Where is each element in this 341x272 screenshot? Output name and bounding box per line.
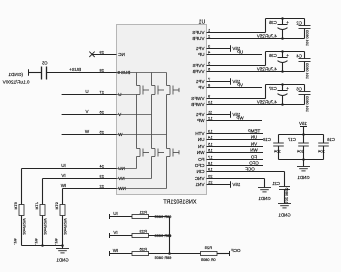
capacitor C17 bbox=[303, 135, 305, 144]
svg-text:15V: 15V bbox=[299, 121, 307, 126]
svg-text:VP: VP bbox=[237, 83, 243, 88]
capacitor C18 bbox=[278, 135, 280, 144]
wire pin12 WP bbox=[207, 120, 263, 122]
svg-text:20mR/2W: 20mR/2W bbox=[22, 218, 26, 235]
svg-text:R16: R16 bbox=[55, 201, 60, 209]
wire pin7 VP1/VN1 bbox=[207, 81, 231, 83]
transistor QU high side bbox=[136, 73, 138, 86]
svg-text:22: 22 bbox=[99, 184, 104, 189]
capacitor C2 ceramic bbox=[304, 19, 306, 26]
svg-text:C16: C16 bbox=[327, 137, 335, 142]
svg-text:R18: R18 bbox=[14, 201, 19, 209]
svg-text:R21: R21 bbox=[139, 209, 147, 214]
svg-text:C36: C36 bbox=[268, 53, 276, 58]
svg-text:GND1: GND1 bbox=[278, 212, 291, 217]
capacitor C16 bbox=[323, 135, 325, 144]
svg-text:VP1: VP1 bbox=[195, 46, 204, 51]
svg-text:19: 19 bbox=[207, 167, 212, 172]
wire pin8 VP bbox=[207, 87, 263, 89]
wire pin17 FO bbox=[207, 159, 264, 161]
gate tick low side bbox=[178, 150, 180, 154]
wire VxFB pin10 bbox=[207, 104, 305, 106]
transistor QW high side bbox=[166, 73, 168, 86]
wire NU pin24 bbox=[22, 168, 117, 170]
wire W to high side bbox=[117, 134, 167, 136]
svg-text:26: 26 bbox=[99, 110, 104, 115]
svg-text:-1%: -1% bbox=[13, 238, 17, 245]
svg-text:FO: FO bbox=[198, 157, 205, 162]
wire W pin25 bbox=[62, 134, 117, 136]
wire V pin26 bbox=[62, 114, 117, 116]
svg-text:WN: WN bbox=[197, 150, 205, 155]
svg-text:68R 0805: 68R 0805 bbox=[155, 255, 172, 260]
wire pin4 UP bbox=[207, 54, 263, 56]
svg-text:4.7uF/25V: 4.7uF/25V bbox=[257, 100, 277, 105]
svg-text:BUS+: BUS+ bbox=[69, 67, 81, 72]
wire sense bus vertical bbox=[169, 217, 171, 254]
svg-text:CFO: CFO bbox=[249, 161, 259, 166]
svg-text:16: 16 bbox=[207, 148, 212, 153]
svg-text:VTH: VTH bbox=[195, 131, 204, 136]
svg-text:28: 28 bbox=[99, 68, 104, 73]
wire VxFS pin1 bbox=[207, 32, 266, 34]
svg-text:GND1: GND1 bbox=[258, 196, 271, 201]
svg-text:102 0805: 102 0805 bbox=[285, 188, 289, 204]
svg-text:12: 12 bbox=[207, 116, 212, 121]
svg-text:IW: IW bbox=[112, 248, 118, 253]
svg-text:R23: R23 bbox=[139, 228, 147, 233]
svg-text:-1%: -1% bbox=[54, 238, 58, 245]
wire VxFB pin6 bbox=[207, 71, 305, 73]
svg-text:C21: C21 bbox=[271, 181, 279, 186]
svg-text:NC: NC bbox=[118, 52, 125, 57]
svg-text:C4: C4 bbox=[296, 54, 302, 59]
wire IV to resistor bbox=[110, 235, 133, 237]
resistor R26 bbox=[132, 252, 149, 256]
wire IU to resistor bbox=[110, 216, 133, 218]
ground GND1 shunt bbox=[62, 246, 64, 249]
svg-text:20: 20 bbox=[207, 174, 212, 179]
svg-text:OCF: OCF bbox=[231, 248, 241, 253]
power flag 15V bbox=[230, 45, 232, 51]
svg-text:VP1: VP1 bbox=[195, 79, 204, 84]
resistor R23 bbox=[132, 234, 149, 238]
power flag 15V bbox=[230, 111, 232, 117]
svg-text:VN1: VN1 bbox=[195, 182, 204, 187]
svg-text:27: 27 bbox=[99, 90, 104, 95]
svg-text:15V: 15V bbox=[232, 182, 240, 187]
svg-text:VP1: VP1 bbox=[195, 112, 204, 117]
capacitor C5 bus bbox=[46, 67, 48, 80]
svg-text:VP: VP bbox=[198, 85, 204, 90]
svg-text:-1%: -1% bbox=[34, 238, 38, 245]
svg-text:104 0603: 104 0603 bbox=[305, 96, 309, 112]
svg-text:+: + bbox=[286, 54, 289, 59]
net flag IW bbox=[109, 251, 111, 256]
svg-text:IU: IU bbox=[61, 163, 66, 168]
power flag 15V bbox=[230, 181, 232, 187]
wire BUS+ rail inside IC bbox=[117, 72, 167, 74]
svg-text:R17: R17 bbox=[35, 201, 40, 209]
svg-text:WP: WP bbox=[236, 116, 243, 121]
svg-text:104: 104 bbox=[273, 149, 280, 154]
svg-text:TEMP: TEMP bbox=[248, 129, 261, 134]
transistor QU low side bbox=[136, 95, 138, 149]
svg-text:UN: UN bbox=[251, 135, 258, 140]
wire to bus bbox=[149, 253, 170, 255]
svg-text:C2: C2 bbox=[296, 21, 302, 26]
wire pin3 VP1/VN1 bbox=[207, 48, 231, 50]
resistor R21 bbox=[132, 215, 149, 219]
svg-text:UP: UP bbox=[237, 50, 243, 55]
net flag OCF bbox=[229, 251, 231, 256]
wire NV inside bbox=[151, 157, 153, 179]
wire R25 to OCF bbox=[217, 253, 230, 255]
svg-text:(GND1: (GND1 bbox=[8, 72, 23, 77]
svg-text:24: 24 bbox=[99, 164, 104, 169]
svg-text:21: 21 bbox=[207, 180, 212, 185]
transistor QV high side bbox=[151, 73, 153, 86]
transistor QW low side bbox=[166, 135, 168, 149]
svg-text:IV: IV bbox=[113, 230, 117, 235]
wire to bus bbox=[149, 216, 170, 218]
svg-text:23: 23 bbox=[99, 174, 104, 179]
svg-text:29: 29 bbox=[99, 50, 104, 55]
wire NW inside bbox=[166, 157, 168, 189]
wire pin11 VP1/VN1 bbox=[207, 114, 231, 116]
ground GND1 under C21 bbox=[278, 203, 291, 205]
net flag IU bbox=[109, 214, 111, 219]
svg-text:XNS15021RT: XNS15021RT bbox=[163, 199, 197, 205]
wire NV pin23 bbox=[43, 178, 117, 180]
wire VxFS pin9 bbox=[207, 98, 266, 100]
power flag GND1 bbox=[28, 69, 30, 75]
svg-text:V: V bbox=[85, 109, 88, 114]
wire VxFB pin2 bbox=[207, 38, 305, 40]
wire U pin27 bbox=[62, 94, 117, 96]
svg-text:VVFB: VVFB bbox=[193, 69, 205, 74]
wire pin14 UN bbox=[207, 139, 264, 141]
wire bus to R25 bbox=[170, 253, 201, 255]
svg-text:C6: C6 bbox=[296, 87, 302, 92]
svg-text:UN: UN bbox=[198, 137, 205, 142]
wire BUS+ pin28 bbox=[47, 72, 117, 74]
resistor R18 shunt bbox=[19, 205, 24, 216]
svg-text:WN: WN bbox=[250, 148, 258, 153]
svg-text:VWFB: VWFB bbox=[191, 102, 204, 107]
svg-text:VUFS: VUFS bbox=[192, 30, 204, 35]
transistor QV low side bbox=[151, 115, 153, 149]
wire 15V rail bbox=[279, 134, 324, 136]
svg-text:OCF: OCF bbox=[245, 167, 255, 172]
svg-text:U: U bbox=[85, 89, 88, 94]
svg-text:VNC: VNC bbox=[194, 176, 204, 181]
svg-text:GND1: GND1 bbox=[297, 175, 310, 180]
svg-text:VWFS: VWFS bbox=[191, 96, 204, 101]
wire U to high side bbox=[117, 94, 137, 96]
wire pin19 CIN / net OCF bbox=[207, 171, 285, 173]
svg-text:IV: IV bbox=[61, 173, 65, 178]
capacitor C6 ceramic bbox=[304, 85, 306, 92]
svg-text:+: + bbox=[286, 21, 289, 26]
wire pin15 VN bbox=[207, 146, 264, 148]
svg-text:17: 17 bbox=[207, 155, 212, 160]
svg-text:4.7uF/25V: 4.7uF/25V bbox=[257, 67, 277, 72]
wire pin16 WN bbox=[207, 152, 264, 154]
svg-text:104: 104 bbox=[296, 149, 303, 154]
svg-text:+: + bbox=[286, 87, 289, 92]
pin29 NC no-connect bbox=[92, 54, 117, 56]
wire pin13 TEMP bbox=[207, 133, 264, 135]
svg-text:13: 13 bbox=[207, 129, 212, 134]
capacitor C37 electrolytic bbox=[282, 85, 284, 91]
svg-text:FO: FO bbox=[250, 155, 257, 160]
svg-text:R26: R26 bbox=[139, 246, 147, 251]
svg-text:VN: VN bbox=[198, 144, 204, 149]
svg-text:CFO: CFO bbox=[194, 163, 204, 168]
svg-text:C35: C35 bbox=[268, 20, 276, 25]
svg-text:104 0603: 104 0603 bbox=[305, 63, 309, 79]
svg-text:104: 104 bbox=[317, 149, 324, 154]
svg-text:C37: C37 bbox=[268, 86, 276, 91]
svg-text:GND1: GND1 bbox=[56, 258, 69, 263]
ground GND1 at VNC bbox=[258, 187, 271, 189]
svg-text:R25: R25 bbox=[204, 245, 212, 250]
ground GND1 bank bbox=[303, 160, 305, 167]
wire shunt common rail bbox=[22, 245, 63, 247]
svg-text:VVFS: VVFS bbox=[193, 63, 205, 68]
IC U1 IPM module body bbox=[117, 25, 207, 195]
svg-text:20mR/2W: 20mR/2W bbox=[63, 218, 67, 235]
svg-text:104 0603: 104 0603 bbox=[305, 30, 309, 46]
wire to GND1 flag bbox=[29, 72, 42, 74]
wire V to high side bbox=[117, 114, 152, 116]
svg-text:18: 18 bbox=[207, 161, 212, 166]
wire pin21 VP1/VN1 bbox=[207, 184, 231, 186]
svg-text:VN: VN bbox=[251, 142, 257, 147]
svg-text:U1: U1 bbox=[199, 19, 206, 25]
svg-text:0R 0805: 0R 0805 bbox=[201, 257, 216, 262]
wire to bus bbox=[149, 235, 170, 237]
capacitor C36 electrolytic bbox=[282, 52, 284, 58]
svg-text:WP: WP bbox=[197, 118, 204, 123]
wire NW pin22 bbox=[63, 188, 117, 190]
resistor R16 shunt bbox=[60, 205, 65, 216]
svg-text:C17: C17 bbox=[287, 137, 295, 142]
svg-text:0.1uF/1200V: 0.1uF/1200V bbox=[2, 80, 30, 85]
wire pin20 VNC bbox=[207, 178, 265, 180]
svg-text:C18: C18 bbox=[262, 137, 270, 142]
svg-text:14: 14 bbox=[207, 135, 212, 140]
wire IW to resistor bbox=[110, 253, 133, 255]
svg-text:10: 10 bbox=[207, 100, 212, 105]
capacitor C35 electrolytic bbox=[282, 19, 284, 25]
svg-text:20mR/2W: 20mR/2W bbox=[43, 218, 47, 235]
svg-text:25: 25 bbox=[99, 130, 104, 135]
svg-text:IU: IU bbox=[113, 211, 118, 216]
svg-text:4.7uF/25V: 4.7uF/25V bbox=[257, 34, 277, 39]
svg-text:15: 15 bbox=[207, 142, 212, 147]
gate tick high side bbox=[178, 88, 180, 92]
svg-text:CIN: CIN bbox=[197, 169, 205, 174]
net flag IV bbox=[109, 233, 111, 238]
wire NU inside bbox=[136, 157, 138, 169]
wire pin18 CFO bbox=[207, 165, 264, 167]
svg-text:C5: C5 bbox=[41, 61, 47, 66]
capacitor C21 bbox=[284, 172, 286, 187]
svg-text:IW: IW bbox=[60, 183, 66, 188]
svg-text:VUFB: VUFB bbox=[192, 36, 204, 41]
resistor R25 bbox=[201, 252, 218, 256]
resistor R17 shunt bbox=[40, 205, 45, 216]
wire VxFS pin5 bbox=[207, 65, 266, 67]
capacitor C4 ceramic bbox=[304, 52, 306, 59]
power flag 15V bbox=[230, 78, 232, 84]
svg-text:UP: UP bbox=[198, 52, 204, 57]
